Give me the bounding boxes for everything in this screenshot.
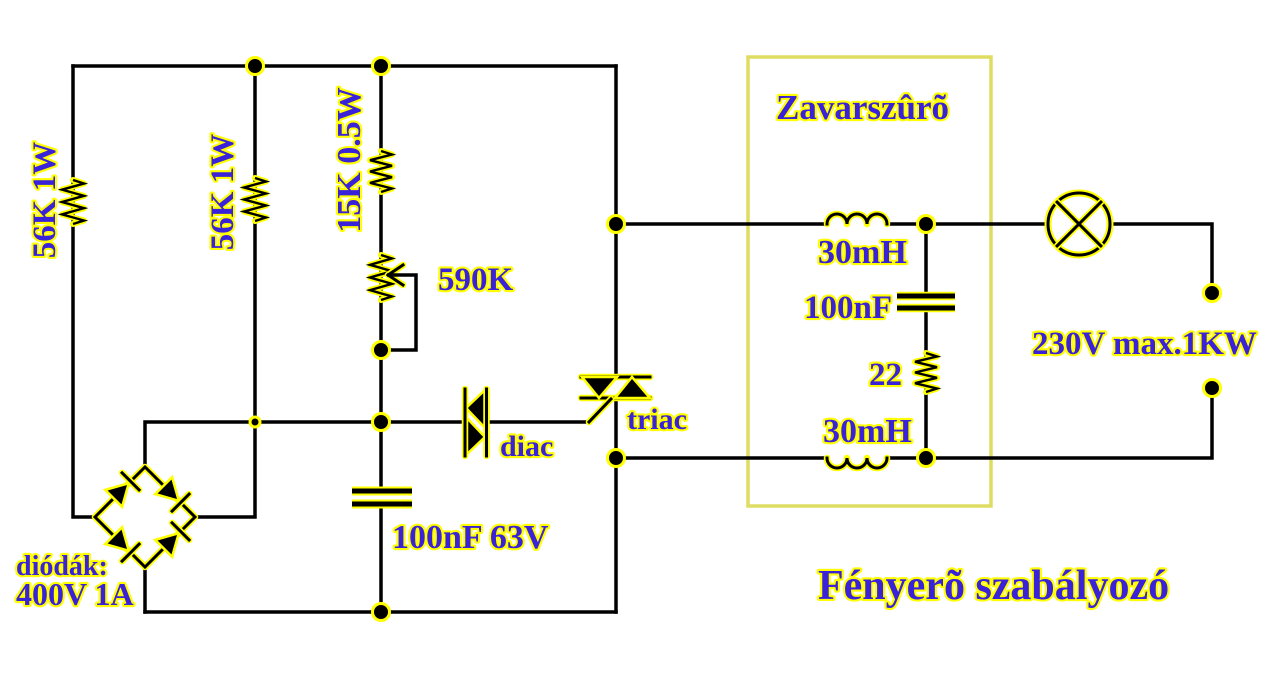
wire filter bottom left	[616, 456, 827, 460]
resistor R3 15K 0.5W	[370, 151, 392, 192]
wire filter middle leg	[924, 224, 928, 296]
lamp	[1048, 193, 1110, 255]
wire filter top right	[887, 222, 1048, 226]
interference filter box Zavarszuro	[748, 57, 991, 506]
svg-text:590K: 590K	[438, 262, 514, 298]
capacitor C2 100nF filter	[897, 296, 955, 308]
resistor R4 22	[915, 353, 937, 392]
svg-text:30mH: 30mH	[818, 234, 907, 271]
svg-text:triac: triac	[627, 403, 687, 436]
svg-text:30mH: 30mH	[823, 413, 912, 450]
node terminal upper	[1204, 285, 1221, 302]
capacitor C1 100nF 63V	[352, 491, 412, 504]
diode D1 top-left	[105, 483, 129, 507]
node triac top branch	[608, 216, 625, 233]
svg-text:56K 1W: 56K 1W	[27, 142, 63, 258]
inductor L1 30mH top	[827, 214, 887, 224]
diode D2 top-right	[155, 477, 179, 501]
wire top rail	[73, 64, 616, 68]
svg-text:22: 22	[869, 357, 902, 393]
node terminal lower	[1204, 380, 1221, 397]
diode D3 bottom-left	[105, 527, 129, 551]
diode D4 bottom-right	[155, 533, 179, 557]
wire lamp to terminal	[1110, 224, 1212, 293]
resistor R2 56K 1W	[244, 178, 266, 221]
node triac bottom branch	[608, 450, 625, 467]
svg-text:230V max.1KW: 230V max.1KW	[1032, 326, 1257, 362]
node bottom rail	[373, 604, 390, 621]
triac	[581, 377, 650, 422]
wire bottom rail	[145, 610, 616, 614]
node top1	[247, 58, 264, 75]
wire bridge top leg and gate wire	[145, 422, 464, 467]
wire right vertical lower	[614, 398, 618, 612]
svg-text:15K 0.5W: 15K 0.5W	[331, 87, 368, 232]
svg-text:100nF: 100nF	[804, 290, 892, 326]
svg-text:Zavarszûrõ: Zavarszûrõ	[776, 88, 949, 127]
node gate wire junction	[373, 414, 390, 431]
wire vertical branch 2	[196, 66, 255, 517]
svg-text:100nF 63V: 100nF 63V	[392, 519, 549, 556]
diac	[465, 389, 487, 456]
node filter top	[918, 216, 935, 233]
diode bridge	[95, 467, 195, 567]
diamond edges	[95, 467, 195, 567]
node filter bottom	[918, 450, 935, 467]
svg-text:400V 1A: 400V 1A	[16, 576, 134, 612]
inductor L2 30mH bottom	[827, 458, 887, 468]
svg-text:diac: diac	[500, 430, 553, 463]
svg-text:Fényerõ szabályozó: Fényerõ szabályozó	[818, 563, 1169, 609]
wire lower terminal down	[887, 388, 1212, 458]
wire diac to triac gate	[488, 420, 589, 424]
wire left rail	[73, 66, 92, 517]
resistor R1 56K 1W	[62, 180, 84, 224]
node pot bottom	[373, 342, 390, 359]
svg-text:56K 1W: 56K 1W	[205, 134, 241, 250]
wire vertical branch 3 top	[379, 66, 383, 490]
node top2	[373, 58, 390, 75]
wire bridge bottom leg	[143, 567, 147, 612]
node small crossing	[250, 417, 260, 427]
wire right vertical main	[614, 66, 618, 377]
wire filter top	[616, 222, 827, 226]
potentiometer 590K	[370, 255, 416, 350]
